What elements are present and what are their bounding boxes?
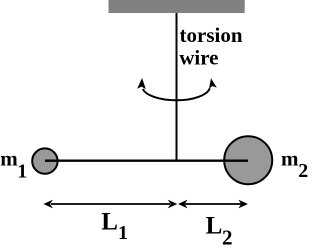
svg-text:m: m — [281, 146, 299, 170]
svg-text:L: L — [101, 209, 118, 236]
svg-text:torsion: torsion — [180, 23, 243, 47]
svg-text:2: 2 — [222, 226, 233, 250]
svg-text:wire: wire — [179, 45, 218, 69]
svg-text:1: 1 — [118, 222, 128, 244]
svg-text:1: 1 — [17, 161, 27, 183]
svg-text:2: 2 — [298, 160, 308, 182]
svg-text:m: m — [0, 146, 18, 170]
svg-text:L: L — [206, 212, 223, 239]
